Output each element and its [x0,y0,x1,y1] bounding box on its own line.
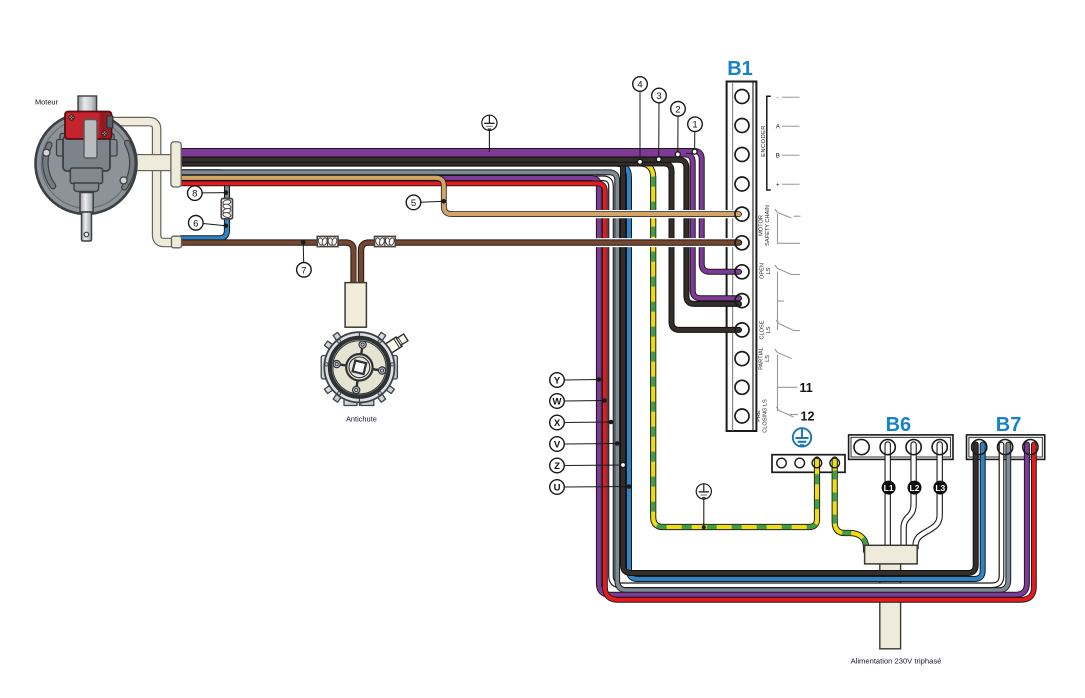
earth terminal strip (base) [772,455,845,473]
motor left kidney slot [45,145,53,186]
svg-text:Z: Z [554,461,560,472]
square hole [353,361,367,375]
wire V (gray) motor phase : clamp to B7 terminal 2 [178,172,1008,590]
wire brown segment 2 : antichute tee to B1 terminal 6 [361,243,739,285]
terminal block B1 (base) [727,82,757,432]
callout 5 [406,195,446,210]
svg-text:5: 5 [411,198,416,209]
rim split lines [358,332,360,338]
svg-text:4: 4 [637,80,642,91]
svg-text:3: 3 [656,91,661,102]
partial ls switch and chain to 11/12 [775,349,798,417]
wire U (blue) motor phase : clamp to B7 terminal 1 [178,164,983,579]
close ls switch [776,320,800,331]
svg-text:B1: B1 [727,58,753,80]
wire Y (purple) motor phase : clamp to B7 terminal 3 [178,178,1027,595]
svg-text:MOTOR: MOTOR [759,215,765,236]
callout Y [550,373,601,388]
callout W [550,394,607,409]
gray slot plate [84,120,97,159]
motor right kidney slot [124,143,132,187]
svg-text:B7: B7 [996,414,1022,436]
angled connector top-right [383,333,409,355]
svg-text:B6: B6 [886,414,912,436]
svg-text:W: W [553,397,562,408]
red box side connector [107,116,113,128]
wire blue (callout 6) : filter to motor connector [181,217,227,239]
encoder pin labels [776,95,781,189]
callout 2 [671,102,686,157]
motor shaft collar [80,193,93,213]
svg-text:L2: L2 [910,483,920,493]
terminal block B6 (base) [849,435,953,460]
svg-text:LS: LS [766,326,772,333]
L1 L2 L3 badges [882,481,948,495]
callout X [550,415,614,430]
callout 4 [633,77,648,165]
wire Z (black) motor phase : clamp to B7 terminal 1 [178,161,976,573]
wire X (white) motor phase : clamp to B7 terminal 2 [178,178,1002,585]
wire earth yellow-green 2 : earth strip terminal 4 to mains junction [835,460,866,552]
svg-text:8: 8 [192,189,197,200]
motor safety chain switch [775,209,801,243]
svg-text:L1: L1 [884,483,894,493]
gearbox lower step 2 [74,183,99,192]
open ls switch and chain line [775,265,800,330]
svg-text:A: A [776,124,781,131]
svg-text:B: B [776,153,780,160]
wire limit-switch black 1 (callout 4) : to B1 terminal 9 CLOSE LS [178,163,739,330]
wire brown segment 1 (callout 7) : connector to antichute tee [181,243,354,285]
motor main body circle [36,113,137,214]
terminal block B7 (base) [967,435,1045,460]
svg-text:ENCODER: ENCODER [761,125,767,157]
wire tan (callout 5) : to B1 terminal 5 [178,178,739,214]
svg-text:SAFETY CHAIN: SAFETY CHAIN [765,205,771,246]
callout 6 [189,216,229,231]
power supply cable (beige, bottom) [880,560,901,649]
shaft hole [84,232,89,237]
ferrite choke A on brown wire [317,236,338,246]
motor shaft [82,212,92,241]
callout Z [550,458,626,473]
encoder bracket [767,96,771,190]
callout V [550,437,620,452]
ferrite choke B on brown wire [375,236,396,246]
wire L1 (white) mains phase [885,445,891,548]
svg-text:11: 11 [800,381,813,395]
gearbox side tabs [57,140,66,157]
encoder pin lines [782,97,800,184]
svg-text:OPEN: OPEN [760,263,766,279]
antichute device (gear) [321,332,409,406]
earth symbol middle (on yellow-green wire) [696,484,711,530]
svg-text:6: 6 [193,218,198,229]
svg-text:Moteur: Moteur [35,98,59,107]
hub [346,354,372,380]
svg-text:LS: LS [766,267,772,274]
svg-text:Y: Y [554,376,561,387]
outer tabs (castellations) [321,332,397,405]
wire limit-switch purple 1 (callout 2) : to B1 terminal 8 [178,154,739,298]
svg-text:+: + [776,182,780,189]
motor terminal red box [65,112,112,140]
callout 1 [688,117,703,154]
callout 3 [652,88,667,162]
svg-text:CLOSE: CLOSE [760,320,766,339]
motor small connector (beige) blue wire end [172,236,182,248]
B1 terminal holes (white fill) [735,90,749,424]
wire clamp (beige) at motor output [171,142,181,187]
svg-text:CLOSING LS: CLOSING LS [762,399,768,433]
dark ring [330,338,389,397]
motor top cylinder [78,96,97,113]
svg-text:Antichute: Antichute [346,415,377,424]
wire W (red) motor phase : clamp to B7 terminal 3 [178,183,1034,599]
gearbox lower step 1 [70,168,102,184]
svg-text:X: X [554,418,561,429]
gearbox block [63,136,110,171]
svg-text:7: 7 [301,265,306,276]
motor assembly [36,96,137,241]
screws [333,341,386,394]
callout 8 [188,186,229,201]
wire conduit from motor junction box (beige tube) [110,122,173,243]
svg-text:LS: LS [765,355,771,362]
earth symbol top (on motor bundle) [482,115,497,152]
red box screws [69,115,74,120]
wire limit-switch black 2 (callout 3) : to B1 terminal 8 [178,160,739,304]
motor slot roller left [43,149,50,156]
wire earth yellow-green : bundle to earth strip terminal 3 [178,163,817,527]
svg-text:U: U [554,483,561,494]
svg-text:Alimentation 230V triphasé: Alimentation 230V triphasé [851,657,942,666]
rim rivets [325,340,394,395]
svg-text:12: 12 [801,410,815,424]
svg-text:PARTIAL: PARTIAL [759,347,765,370]
wire L3 (white) mains phase [916,445,940,549]
wire limit-switch purple 2 (callout 1) : to B1 terminal 7 OPEN LS [178,151,739,272]
B1 terminal rings [735,90,749,424]
antichute connector box [345,283,366,328]
wire gray to inline filter (8) [178,172,227,199]
svg-text:V: V [554,440,561,451]
svg-text:1: 1 [692,120,697,131]
svg-text:L3: L3 [935,483,945,493]
B7 terminal rings [972,440,1038,455]
inline filter component (between 8 and 6) [221,199,232,219]
svg-text:2: 2 [675,104,680,115]
gearbox flange [60,134,114,142]
callout U [550,480,632,495]
earth strip rings [777,458,840,468]
mains junction box (beige) [865,545,918,564]
wire L2 (white) mains phase [904,445,914,548]
earth symbol blue (above earth strip) [793,428,811,446]
spokes [335,343,385,393]
svg-text:-: - [777,95,779,102]
motor cable sheath bar [135,155,172,171]
B6 terminal rings [854,440,947,455]
gear outer circle [324,332,394,402]
svg-text:PRE: PRE [756,410,762,422]
motor slot roller right [120,177,127,184]
callout 7 [297,240,312,277]
